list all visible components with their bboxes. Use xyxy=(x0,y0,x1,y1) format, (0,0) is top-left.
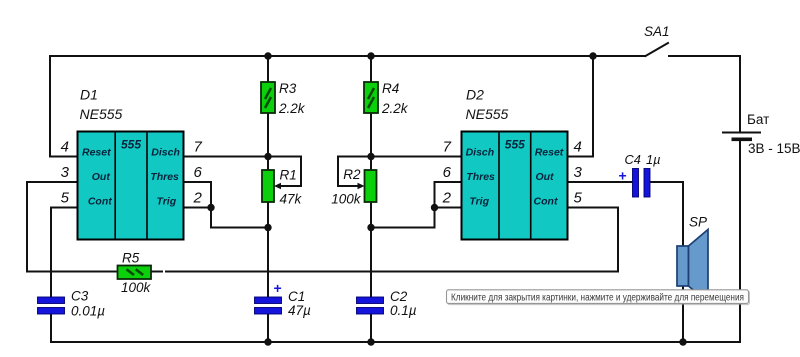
svg-text:3: 3 xyxy=(574,164,583,181)
svg-text:Reset: Reset xyxy=(535,147,564,159)
label C1 xyxy=(288,289,311,318)
node R1 bottom xyxy=(264,224,271,231)
label R4 xyxy=(381,81,409,116)
svg-text:Cont: Cont xyxy=(88,195,112,207)
wire D1 pin4 to top rail xyxy=(50,56,78,157)
node C2 ground xyxy=(367,338,374,345)
node R2 bottom xyxy=(367,224,374,231)
resistor R5 xyxy=(118,266,152,280)
wire R3 to R1 xyxy=(267,113,269,170)
svg-text:6: 6 xyxy=(443,164,452,181)
svg-text:2.2k: 2.2k xyxy=(381,101,409,116)
svg-text:0.1µ: 0.1µ xyxy=(390,303,417,318)
IC D2 body xyxy=(462,132,568,240)
capacitor C2 xyxy=(357,297,384,314)
wire C1 to bottom rail xyxy=(267,314,269,342)
node D2 pin2/pin6 xyxy=(431,204,438,211)
label C4 xyxy=(625,152,661,167)
battery Бат xyxy=(722,133,761,142)
svg-text:Out: Out xyxy=(92,171,111,183)
wire control line left segment to R5 xyxy=(27,271,117,273)
svg-text:100k: 100k xyxy=(331,192,362,207)
wire D2 pin5 cont down xyxy=(568,208,619,272)
svg-text:C2: C2 xyxy=(390,289,408,304)
wire D1 pin6 down xyxy=(184,182,212,228)
wire top rail to R4 xyxy=(370,56,372,82)
potentiometer R1 xyxy=(262,170,281,202)
svg-text:6: 6 xyxy=(194,164,203,181)
label R2 xyxy=(331,167,362,207)
svg-text:Thres: Thres xyxy=(150,171,179,183)
svg-text:5: 5 xyxy=(61,190,70,207)
svg-text:Бат: Бат xyxy=(747,112,769,127)
svg-text:7: 7 xyxy=(194,139,203,156)
IC D1 internal labels xyxy=(82,138,180,208)
svg-text:R3: R3 xyxy=(279,81,297,96)
node R3/R1/pin7 xyxy=(264,153,271,160)
svg-text:7: 7 xyxy=(443,139,452,156)
node C1 ground xyxy=(264,338,271,345)
resistor R3 xyxy=(261,82,275,113)
wire C3 to bottom rail xyxy=(50,314,52,342)
svg-text:100k: 100k xyxy=(121,280,152,295)
svg-text:1µ: 1µ xyxy=(646,152,661,167)
svg-text:C4: C4 xyxy=(625,152,641,167)
svg-text:47µ: 47µ xyxy=(288,303,311,318)
svg-text:C3: C3 xyxy=(71,289,89,304)
IC D1 ref labels xyxy=(80,87,123,123)
wire D2 pin3 out to C4 xyxy=(568,181,633,183)
svg-text:0.01µ: 0.01µ xyxy=(71,304,105,319)
speaker SP xyxy=(677,230,708,303)
svg-text:R2: R2 xyxy=(343,167,361,182)
svg-text:3В - 15В: 3В - 15В xyxy=(748,141,800,156)
svg-text:Trig: Trig xyxy=(156,195,176,207)
IC D2 internal labels xyxy=(466,138,564,208)
resistor R4 xyxy=(364,82,378,113)
svg-text:4: 4 xyxy=(61,139,69,156)
svg-text:555: 555 xyxy=(121,138,141,152)
node D1 pin2/pin6 xyxy=(207,204,214,211)
svg-text:5: 5 xyxy=(574,190,583,207)
wire D1 pin5 to C3 xyxy=(51,208,78,298)
wire R2 wiper loop xyxy=(338,157,371,187)
potentiometer R2 xyxy=(358,170,377,202)
IC D1 body xyxy=(78,132,184,240)
wire bottom rail xyxy=(51,341,740,343)
svg-text:4: 4 xyxy=(574,139,582,156)
wire control line long segment xyxy=(166,271,618,273)
svg-text:Reset: Reset xyxy=(82,147,111,159)
capacitor C4 xyxy=(619,168,651,198)
svg-text:D2: D2 xyxy=(466,87,484,103)
wire top rail left segment xyxy=(50,55,645,57)
svg-text:3: 3 xyxy=(61,164,70,181)
svg-text:SP: SP xyxy=(689,215,707,230)
wire R1 wiper loop xyxy=(268,157,301,187)
node R4/R2/pin7 xyxy=(367,153,374,160)
svg-text:C1: C1 xyxy=(288,289,305,304)
wire D2 trig node to R2 bottom node xyxy=(371,227,435,229)
IC D2 ref labels xyxy=(466,87,509,123)
svg-text:47k: 47k xyxy=(280,192,303,207)
label C3 xyxy=(71,289,105,319)
svg-text:2: 2 xyxy=(442,190,452,207)
svg-text:Out: Out xyxy=(535,171,554,183)
svg-text:Disch: Disch xyxy=(151,147,180,159)
wire D1 pin3 out down xyxy=(27,182,78,272)
capacitor C3 xyxy=(38,297,65,314)
node top rail R3 xyxy=(264,52,271,59)
svg-text:+: + xyxy=(619,168,627,184)
svg-text:Trig: Trig xyxy=(469,195,489,207)
svg-text:D1: D1 xyxy=(80,87,98,103)
label R1 xyxy=(280,168,303,207)
wire R4 to R2 xyxy=(370,113,372,170)
capacitor C1 xyxy=(255,280,282,314)
wire D1 pin2 xyxy=(184,207,212,209)
svg-text:Кликните для закрытия картинки: Кликните для закрытия картинки, нажмите … xyxy=(451,292,744,303)
svg-text:+: + xyxy=(274,280,282,296)
svg-text:Disch: Disch xyxy=(466,147,495,159)
wire top rail right segment xyxy=(669,55,740,57)
wire R1 bottom to C1 xyxy=(267,202,269,297)
tooltip box xyxy=(447,290,750,305)
svg-text:NE555: NE555 xyxy=(466,106,509,122)
IC D2 pin numbers xyxy=(442,139,583,207)
node top rail D2 reset xyxy=(589,52,596,59)
label battery xyxy=(747,112,800,156)
wire node to D2 pin7 xyxy=(371,156,462,158)
wire C4 to speaker xyxy=(650,182,683,246)
wire C2 to bottom rail xyxy=(370,314,372,342)
wire D2 pin4 reset to top rail xyxy=(568,56,594,157)
wire D2 pin6 down xyxy=(435,182,462,228)
svg-text:SA1: SA1 xyxy=(644,24,670,39)
label R5 xyxy=(121,251,152,295)
wire battery bottom xyxy=(739,141,741,342)
node speaker ground xyxy=(679,338,686,345)
wire D1 trig node to R1 bottom node xyxy=(211,227,268,229)
svg-text:Thres: Thres xyxy=(466,171,495,183)
svg-text:R1: R1 xyxy=(280,168,297,183)
label R3 xyxy=(278,81,306,116)
svg-text:Cont: Cont xyxy=(534,195,558,207)
svg-text:555: 555 xyxy=(505,138,525,152)
label C2 xyxy=(390,289,417,318)
svg-text:2: 2 xyxy=(193,190,203,207)
switch SA1 blade xyxy=(646,43,669,56)
wire D1 pin7 to node xyxy=(184,156,269,158)
svg-text:R4: R4 xyxy=(382,81,399,96)
wire speaker to bottom rail xyxy=(682,286,684,342)
wire D2 pin2 xyxy=(435,207,462,209)
IC D1 pin numbers xyxy=(61,139,203,207)
wire top rail to R3 xyxy=(267,56,269,82)
svg-text:R5: R5 xyxy=(122,251,140,266)
svg-text:2.2k: 2.2k xyxy=(278,101,306,116)
svg-text:NE555: NE555 xyxy=(80,106,123,122)
wire battery top xyxy=(739,56,741,133)
wire R5 to short stub xyxy=(151,271,162,273)
node top rail R4 xyxy=(367,52,374,59)
wire R2 bottom to C2 xyxy=(370,202,372,297)
